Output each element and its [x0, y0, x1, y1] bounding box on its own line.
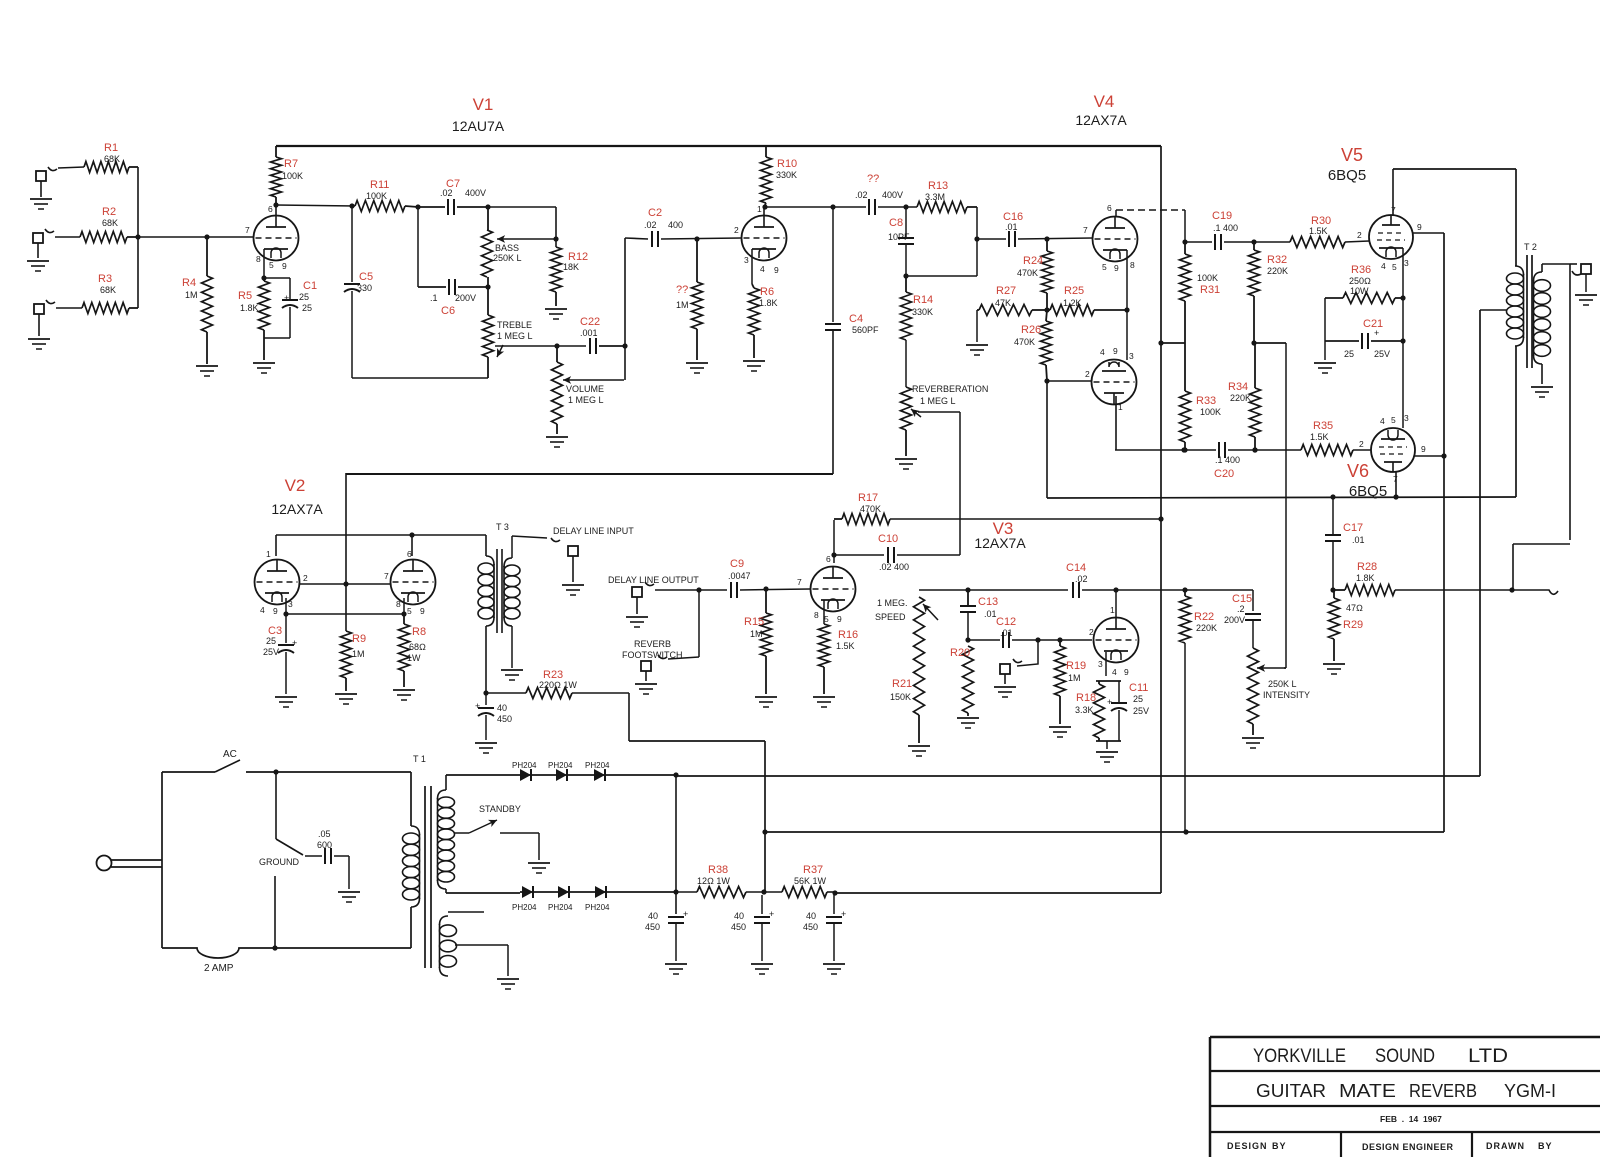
svg-text:C21: C21 — [1363, 318, 1383, 330]
svg-text:9: 9 — [1124, 667, 1129, 677]
svg-text:25V: 25V — [263, 647, 279, 657]
svg-text:12AX7A: 12AX7A — [974, 535, 1026, 551]
svg-text:4: 4 — [1381, 261, 1386, 271]
svg-text:.01: .01 — [984, 609, 997, 619]
svg-text:PH204: PH204 — [585, 903, 610, 912]
svg-text:R8: R8 — [412, 626, 426, 638]
svg-text:8: 8 — [396, 599, 401, 609]
svg-text:1M: 1M — [1068, 673, 1081, 683]
svg-text:R34: R34 — [1228, 381, 1248, 393]
svg-text:R36: R36 — [1351, 264, 1371, 276]
svg-text:.1: .1 — [430, 293, 438, 303]
svg-text:3: 3 — [744, 255, 749, 265]
svg-text:9: 9 — [273, 606, 278, 616]
svg-text:1W: 1W — [407, 653, 421, 663]
svg-text:9: 9 — [1421, 444, 1426, 454]
svg-text:R25: R25 — [1064, 285, 1084, 297]
svg-text:R6: R6 — [760, 286, 774, 298]
svg-text:+: + — [475, 701, 480, 711]
svg-text:450: 450 — [803, 922, 818, 932]
svg-text:R3: R3 — [98, 273, 112, 285]
svg-text:STANDBY: STANDBY — [479, 804, 521, 814]
svg-text:220K: 220K — [1230, 393, 1251, 403]
svg-text:C8: C8 — [889, 217, 903, 229]
svg-text:C17: C17 — [1343, 522, 1363, 534]
svg-text:R9: R9 — [352, 633, 366, 645]
svg-text:.02: .02 — [644, 220, 657, 230]
svg-text:.01: .01 — [1005, 222, 1018, 232]
svg-text:100K: 100K — [366, 191, 387, 201]
svg-text:C14: C14 — [1066, 562, 1086, 574]
svg-text:3: 3 — [1404, 258, 1409, 268]
svg-text:PH204: PH204 — [585, 761, 610, 770]
svg-text:25: 25 — [1344, 349, 1354, 359]
svg-text:R21: R21 — [892, 678, 912, 690]
svg-text:5: 5 — [269, 260, 274, 270]
svg-text:9: 9 — [1113, 346, 1118, 356]
svg-text:7: 7 — [384, 571, 389, 581]
svg-text:+: + — [284, 293, 289, 303]
svg-text:25V: 25V — [1374, 349, 1390, 359]
svg-text:??: ?? — [867, 173, 879, 185]
svg-text:6: 6 — [826, 554, 831, 564]
svg-text:12Ω 1W: 12Ω 1W — [697, 876, 730, 886]
svg-text:1.8K: 1.8K — [759, 298, 778, 308]
svg-text:C6: C6 — [441, 305, 455, 317]
svg-text:R29: R29 — [1343, 619, 1363, 631]
svg-text:DELAY LINE OUTPUT: DELAY LINE OUTPUT — [608, 575, 699, 585]
svg-text:150K: 150K — [890, 692, 911, 702]
svg-text:.02: .02 — [1075, 574, 1088, 584]
svg-text:4: 4 — [260, 605, 265, 615]
svg-text:100K: 100K — [282, 171, 303, 181]
svg-text:4: 4 — [1380, 416, 1385, 426]
svg-text:68Ω: 68Ω — [409, 642, 426, 652]
svg-text:C13: C13 — [978, 596, 998, 608]
svg-text:.01: .01 — [1352, 535, 1365, 545]
svg-text:V4: V4 — [1094, 92, 1115, 111]
svg-text:REVERBERATION: REVERBERATION — [912, 384, 988, 394]
svg-text:600: 600 — [317, 840, 332, 850]
svg-text:18K: 18K — [563, 262, 579, 272]
svg-text:MATE: MATE — [1339, 1081, 1396, 1101]
svg-text:400V: 400V — [882, 190, 903, 200]
svg-text:5: 5 — [1102, 262, 1107, 272]
svg-text:100K: 100K — [1200, 407, 1221, 417]
svg-text:LTD: LTD — [1468, 1046, 1508, 1067]
svg-text:450: 450 — [497, 714, 512, 724]
svg-text:R19: R19 — [1066, 660, 1086, 672]
svg-text:FOOTSWITCH: FOOTSWITCH — [622, 650, 683, 660]
svg-text:1.8K: 1.8K — [240, 303, 259, 313]
svg-text:+: + — [683, 909, 688, 919]
svg-text:V1: V1 — [473, 95, 494, 114]
svg-text:C5: C5 — [359, 271, 373, 283]
svg-text:450: 450 — [731, 922, 746, 932]
svg-text:C4: C4 — [849, 313, 863, 325]
svg-text:10W: 10W — [1350, 286, 1369, 296]
svg-text:1: 1 — [1110, 605, 1115, 615]
svg-text:3: 3 — [1404, 413, 1409, 423]
svg-text:C2: C2 — [648, 207, 662, 219]
svg-text:2: 2 — [1089, 627, 1094, 637]
svg-text:56K 1W: 56K 1W — [794, 876, 827, 886]
svg-text:BY: BY — [1272, 1141, 1287, 1151]
svg-text:5: 5 — [824, 614, 829, 624]
svg-text:R31: R31 — [1200, 284, 1220, 296]
svg-text:3: 3 — [1129, 351, 1134, 361]
svg-text:R10: R10 — [777, 158, 797, 170]
svg-text:SOUND: SOUND — [1375, 1046, 1435, 1067]
svg-text:FEB . 14 1967: FEB . 14 1967 — [1380, 1114, 1442, 1124]
svg-text:.02 400: .02 400 — [879, 562, 909, 572]
svg-text:9: 9 — [282, 261, 287, 271]
svg-text:9: 9 — [1114, 263, 1119, 273]
svg-text:R14: R14 — [913, 294, 933, 306]
svg-text:470K: 470K — [860, 504, 881, 514]
svg-text:9: 9 — [420, 606, 425, 616]
svg-text:C1: C1 — [303, 280, 317, 292]
svg-text:YORKVILLE: YORKVILLE — [1253, 1046, 1346, 1067]
svg-text:1 MEG L: 1 MEG L — [920, 396, 956, 406]
svg-text:1.5K: 1.5K — [1310, 432, 1329, 442]
svg-text:3.3K: 3.3K — [1075, 705, 1094, 715]
svg-text:1M: 1M — [352, 649, 365, 659]
svg-text:68K: 68K — [100, 285, 116, 295]
svg-text:100K: 100K — [1197, 273, 1218, 283]
svg-text:REVERB: REVERB — [1409, 1081, 1477, 1101]
svg-text:6: 6 — [407, 549, 412, 559]
svg-text:DESIGN ENGINEER: DESIGN ENGINEER — [1362, 1142, 1454, 1152]
svg-text:PH204: PH204 — [512, 761, 537, 770]
svg-text:R5: R5 — [238, 290, 252, 302]
svg-text:R20: R20 — [950, 647, 970, 659]
svg-text:25: 25 — [1133, 694, 1143, 704]
svg-text:R33: R33 — [1196, 395, 1216, 407]
svg-text:5: 5 — [1391, 415, 1396, 425]
svg-text:1: 1 — [757, 204, 762, 214]
svg-text:2: 2 — [1359, 439, 1364, 449]
svg-text:T 3: T 3 — [496, 522, 509, 532]
svg-text:25: 25 — [266, 636, 276, 646]
svg-text:5: 5 — [1392, 262, 1397, 272]
svg-text:2: 2 — [303, 573, 308, 583]
svg-text:GUITAR: GUITAR — [1256, 1081, 1326, 1101]
svg-text:250Ω: 250Ω — [1349, 276, 1371, 286]
svg-text:12AX7A: 12AX7A — [1075, 112, 1127, 128]
svg-text:1M: 1M — [676, 300, 689, 310]
svg-text:C19: C19 — [1212, 210, 1232, 222]
svg-text:.0047: .0047 — [728, 571, 751, 581]
svg-text:T 1: T 1 — [413, 754, 426, 764]
svg-text:.1 400: .1 400 — [1213, 223, 1238, 233]
svg-text:330: 330 — [357, 283, 372, 293]
svg-text:330K: 330K — [912, 307, 933, 317]
svg-text:.2: .2 — [1237, 604, 1245, 614]
svg-text:GROUND: GROUND — [259, 857, 299, 867]
svg-text:25: 25 — [302, 303, 312, 313]
svg-text:C20: C20 — [1214, 468, 1234, 480]
svg-text:R1: R1 — [104, 142, 118, 154]
svg-text:1.5K: 1.5K — [836, 641, 855, 651]
svg-text:AC: AC — [223, 749, 237, 760]
svg-text:9: 9 — [1417, 222, 1422, 232]
svg-text:6: 6 — [1107, 203, 1112, 213]
svg-text:68K: 68K — [102, 218, 118, 228]
svg-text:1 MEG L: 1 MEG L — [568, 395, 604, 405]
svg-text:330K: 330K — [776, 170, 797, 180]
svg-text:1M: 1M — [185, 290, 198, 300]
svg-text:C11: C11 — [1129, 682, 1148, 694]
svg-text:1: 1 — [266, 549, 271, 559]
svg-text:2: 2 — [1357, 230, 1362, 240]
svg-text:.01: .01 — [1000, 628, 1013, 638]
svg-text:V5: V5 — [1341, 145, 1363, 165]
svg-text:DESIGN: DESIGN — [1227, 1141, 1268, 1151]
svg-text:47K: 47K — [995, 298, 1011, 308]
svg-text:YGM-I: YGM-I — [1504, 1081, 1556, 1101]
svg-text:400: 400 — [668, 220, 683, 230]
svg-text:R4: R4 — [182, 277, 196, 289]
svg-text:7: 7 — [1393, 474, 1398, 484]
svg-text:6BQ5: 6BQ5 — [1328, 167, 1366, 184]
svg-text:200V: 200V — [1224, 615, 1245, 625]
svg-text:7: 7 — [1083, 225, 1088, 235]
svg-text:6BQ5: 6BQ5 — [1349, 483, 1387, 500]
svg-text:TREBLE: TREBLE — [497, 320, 532, 330]
svg-text:BASS: BASS — [495, 243, 519, 253]
svg-text:??: ?? — [676, 284, 688, 296]
svg-text:2: 2 — [734, 225, 739, 235]
svg-text:40: 40 — [648, 911, 658, 921]
svg-text:C10: C10 — [878, 533, 898, 545]
svg-text:40: 40 — [806, 911, 816, 921]
svg-text:REVERB: REVERB — [634, 639, 671, 649]
svg-text:.02: .02 — [440, 188, 453, 198]
svg-text:3: 3 — [288, 599, 293, 609]
svg-text:T 2: T 2 — [1524, 242, 1537, 252]
svg-text:7: 7 — [1391, 205, 1396, 215]
svg-text:220K: 220K — [1196, 623, 1217, 633]
svg-text:8: 8 — [256, 254, 261, 264]
svg-text:DELAY LINE INPUT: DELAY LINE INPUT — [553, 526, 634, 536]
svg-text:7: 7 — [797, 577, 802, 587]
svg-text:250K L: 250K L — [493, 253, 522, 263]
svg-text:R37: R37 — [803, 864, 823, 876]
svg-text:.02: .02 — [855, 190, 868, 200]
svg-text:PH204: PH204 — [548, 903, 573, 912]
svg-text:V6: V6 — [1347, 461, 1369, 481]
svg-text:4: 4 — [760, 264, 765, 274]
svg-text:R38: R38 — [708, 864, 728, 876]
svg-text:PH204: PH204 — [512, 903, 537, 912]
svg-text:.1 400: .1 400 — [1215, 455, 1240, 465]
svg-text:9: 9 — [837, 614, 842, 624]
svg-text:R17: R17 — [858, 492, 878, 504]
svg-text:1: 1 — [1118, 402, 1123, 412]
svg-text:200V: 200V — [455, 293, 476, 303]
svg-text:3: 3 — [1098, 659, 1103, 669]
svg-text:470K: 470K — [1014, 337, 1035, 347]
svg-text:PH204: PH204 — [548, 761, 573, 770]
svg-text:R26: R26 — [1021, 324, 1041, 336]
svg-text:R11: R11 — [370, 179, 389, 191]
svg-text:2 AMP: 2 AMP — [204, 963, 234, 974]
svg-text:.05: .05 — [318, 829, 331, 839]
svg-text:12AU7A: 12AU7A — [452, 118, 505, 134]
svg-text:VOLUME: VOLUME — [566, 384, 604, 394]
svg-text:INTENSITY: INTENSITY — [1263, 690, 1310, 700]
svg-text:R2: R2 — [102, 206, 116, 218]
svg-text:R13: R13 — [928, 180, 948, 192]
svg-text:R7: R7 — [284, 158, 298, 170]
svg-text:R24: R24 — [1023, 255, 1043, 267]
svg-text:6: 6 — [268, 204, 273, 214]
svg-text:1.2K: 1.2K — [1063, 298, 1082, 308]
svg-text:+: + — [841, 909, 846, 919]
svg-text:R15: R15 — [744, 616, 764, 628]
svg-text:12AX7A: 12AX7A — [271, 501, 323, 517]
svg-text:47Ω: 47Ω — [1346, 603, 1363, 613]
svg-text:40: 40 — [497, 703, 507, 713]
svg-text:R22: R22 — [1194, 611, 1214, 623]
svg-text:R35: R35 — [1313, 420, 1333, 432]
svg-text:SPEED: SPEED — [875, 612, 906, 622]
svg-text:5: 5 — [407, 606, 412, 616]
svg-text:.001: .001 — [580, 328, 598, 338]
svg-text:4: 4 — [1112, 667, 1117, 677]
svg-text:220K: 220K — [1267, 266, 1288, 276]
svg-text:R18: R18 — [1076, 692, 1096, 704]
svg-text:40: 40 — [734, 911, 744, 921]
svg-text:250K L: 250K L — [1268, 679, 1297, 689]
svg-text:3.3M: 3.3M — [925, 192, 945, 202]
svg-text:9: 9 — [774, 265, 779, 275]
svg-text:4: 4 — [1100, 347, 1105, 357]
svg-text:C22: C22 — [580, 316, 600, 328]
svg-text:1 MEG.: 1 MEG. — [877, 598, 908, 608]
svg-text:R28: R28 — [1357, 561, 1377, 573]
svg-text:R27: R27 — [996, 285, 1016, 297]
svg-text:+: + — [769, 909, 774, 919]
svg-text:+: + — [292, 638, 297, 648]
svg-text:C12: C12 — [996, 616, 1016, 628]
svg-text:V2: V2 — [285, 476, 306, 495]
svg-text:1 MEG L: 1 MEG L — [497, 331, 533, 341]
svg-text:2: 2 — [1085, 369, 1090, 379]
svg-text:560PF: 560PF — [852, 325, 879, 335]
svg-text:C9: C9 — [730, 558, 744, 570]
svg-text:68K: 68K — [104, 154, 120, 164]
svg-text:25V: 25V — [1133, 706, 1149, 716]
svg-text:DRAWN: DRAWN — [1486, 1141, 1525, 1151]
svg-text:R32: R32 — [1267, 254, 1287, 266]
svg-text:400V: 400V — [465, 188, 486, 198]
svg-text:470K: 470K — [1017, 268, 1038, 278]
svg-text:450: 450 — [645, 922, 660, 932]
svg-text:R16: R16 — [838, 629, 858, 641]
svg-text:10PF: 10PF — [888, 232, 910, 242]
svg-text:220Ω 1W: 220Ω 1W — [539, 680, 577, 690]
svg-text:+: + — [1107, 697, 1112, 707]
svg-text:25: 25 — [299, 292, 309, 302]
svg-text:1.8K: 1.8K — [1356, 573, 1375, 583]
svg-text:8: 8 — [1130, 260, 1135, 270]
svg-text:1.5K: 1.5K — [1309, 226, 1328, 236]
svg-text:BY: BY — [1538, 1141, 1553, 1151]
svg-text:7: 7 — [245, 225, 250, 235]
svg-text:1M: 1M — [750, 629, 763, 639]
svg-text:8: 8 — [814, 610, 819, 620]
